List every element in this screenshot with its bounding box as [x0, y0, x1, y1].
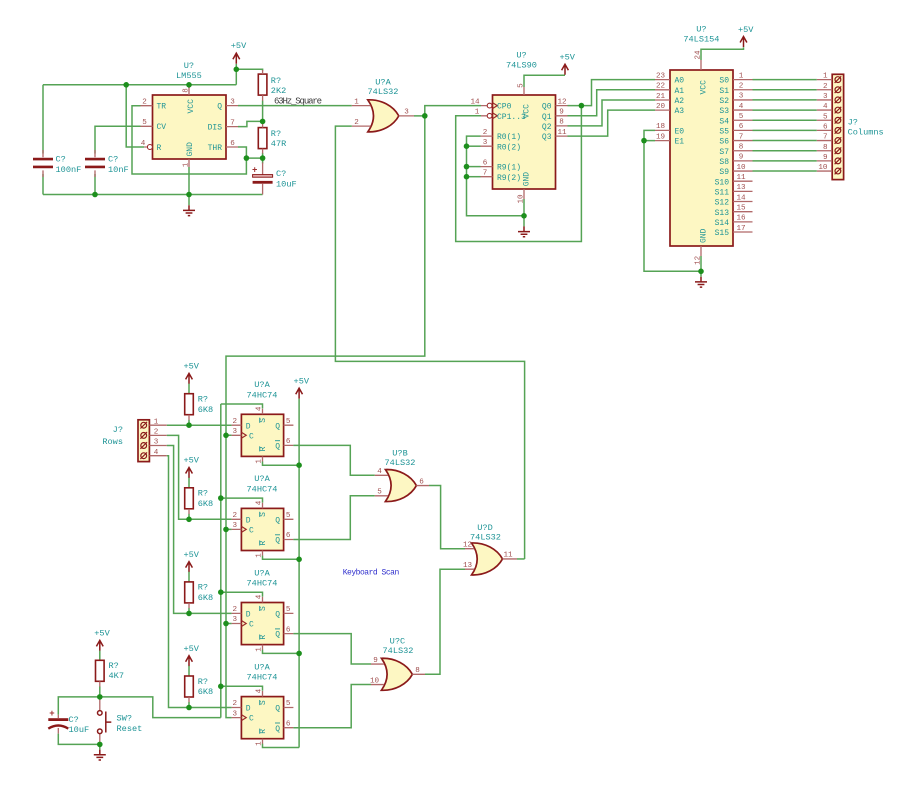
svg-text:Q1: Q1	[542, 113, 552, 122]
svg-text:4: 4	[739, 103, 744, 111]
junction (299.1,559.3)	[296, 557, 302, 563]
svg-text:11: 11	[736, 174, 746, 182]
wire R0/R9 reset pins to GND	[467, 136, 525, 216]
wire left branch to C 100nF	[42, 85, 44, 195]
wire U?C output to U?D pin 13	[425, 569, 465, 674]
svg-text:R?: R?	[109, 661, 119, 671]
junction (220.8,686.3)	[218, 684, 224, 690]
wire S7 to column 8	[753, 150, 817, 152]
svg-text:A1: A1	[675, 87, 685, 96]
ground (reset)	[99, 744, 101, 749]
svg-text:2: 2	[142, 99, 147, 107]
wire S3 to column 4	[753, 109, 817, 111]
wire DIS pin 7	[238, 121, 263, 126]
or-gate U?C 74LS32	[370, 636, 425, 690]
svg-text:U?: U?	[516, 51, 526, 61]
wire R0(2)	[467, 145, 481, 147]
resistor R2 47R	[258, 123, 286, 154]
svg-text:9: 9	[559, 109, 564, 117]
wire Q0 to A0	[568, 80, 656, 106]
wire row 2	[167, 435, 232, 519]
capacitor C2 10nF	[85, 150, 129, 177]
wire GND pin 10	[523, 199, 525, 226]
switch SW? Reset	[98, 697, 143, 745]
svg-text:Q0: Q0	[542, 103, 552, 112]
wire bottom ground rail	[43, 194, 263, 196]
resistor R7 4K7	[96, 651, 124, 697]
svg-text:C?: C?	[56, 155, 66, 165]
svg-text:S15: S15	[715, 229, 730, 238]
junction (189,84.8)	[186, 82, 192, 88]
wire B: U?D output up to U?A pin 2	[335, 126, 524, 559]
junction (226,623.5)	[223, 621, 229, 627]
svg-text:9: 9	[823, 154, 828, 162]
svg-text:6: 6	[230, 140, 235, 148]
svg-text:+5V: +5V	[94, 629, 110, 639]
svg-text:S3: S3	[719, 107, 729, 116]
svg-text:S6: S6	[719, 138, 729, 147]
svg-text:74LS32: 74LS32	[368, 87, 399, 97]
junction (220.8,592.2)	[218, 589, 224, 595]
flip-flop U4A 74HC74	[221, 568, 299, 653]
svg-text:9: 9	[373, 657, 378, 665]
svg-text:17: 17	[736, 225, 745, 233]
svg-text:+: +	[252, 166, 257, 176]
svg-text:A3: A3	[675, 107, 685, 116]
wire THR pin 6	[238, 147, 246, 158]
svg-text:U?B: U?B	[392, 448, 407, 458]
wire S8 to column 9	[753, 160, 817, 162]
svg-text:4: 4	[823, 103, 828, 111]
svg-text:S12: S12	[715, 199, 730, 208]
svg-text:R9(1): R9(1)	[497, 164, 521, 173]
wire U?B output to U?D pin 12	[429, 486, 465, 549]
svg-text:Q2: Q2	[542, 123, 552, 132]
junction (189,707.5)	[186, 705, 192, 711]
decoder U? 74LS154	[655, 25, 753, 265]
resistor R3 6K8 pull-up	[183, 362, 213, 426]
svg-text:R0(1): R0(1)	[497, 133, 521, 142]
wire clock taps to FF clocks	[226, 435, 232, 623]
svg-text:Q3: Q3	[542, 133, 552, 142]
svg-text:2K2: 2K2	[271, 86, 286, 96]
power +5V (74LS90)	[559, 53, 575, 75]
svg-text:S7: S7	[719, 148, 729, 157]
or-gate U?A 74LS32	[352, 78, 414, 132]
svg-text:4K7: 4K7	[109, 671, 124, 681]
svg-text:+5V: +5V	[294, 376, 310, 386]
svg-text:2: 2	[354, 119, 359, 127]
resistor R1 2K2	[258, 70, 286, 101]
svg-text:E1: E1	[675, 138, 685, 147]
svg-text:5: 5	[739, 113, 744, 121]
flip-flop U2A 74HC74	[221, 380, 299, 465]
svg-text:C?: C?	[69, 715, 79, 725]
wire 63Hz_Square Q output	[238, 105, 352, 107]
svg-text:S14: S14	[715, 219, 730, 228]
svg-text:19: 19	[656, 133, 666, 141]
svg-text:GND: GND	[522, 172, 531, 187]
svg-text:74LS32: 74LS32	[383, 646, 414, 656]
wire S4 to column 5	[753, 119, 817, 121]
svg-text:11: 11	[557, 129, 567, 137]
svg-text:C?: C?	[108, 155, 118, 165]
svg-text:47R: 47R	[271, 139, 286, 149]
svg-text:10: 10	[818, 164, 828, 172]
svg-text:3: 3	[404, 109, 409, 117]
wire row 4	[167, 456, 232, 708]
wire +5V junction to 2K2 top	[236, 64, 262, 85]
wire 47R bottom node	[246, 153, 262, 164]
capacitor C4 10uF polarized	[48, 709, 89, 735]
wire U?A output to CP0	[414, 106, 481, 116]
wire Q1 to A1	[568, 90, 656, 116]
junction (246.4,158.1)	[244, 155, 250, 161]
svg-text:J?: J?	[113, 425, 123, 435]
wire U?D output to feedback	[517, 558, 525, 560]
svg-text:7: 7	[739, 133, 744, 141]
wire E0 E1 enable to ground	[644, 130, 701, 271]
junction (99.8,696.9)	[97, 694, 103, 700]
svg-text:74LS154: 74LS154	[683, 34, 719, 44]
connector J? Rows	[102, 418, 166, 461]
svg-text:6: 6	[483, 159, 488, 167]
flip-flop U5A 74HC74	[221, 662, 299, 747]
junction (226,529.4)	[223, 527, 229, 533]
svg-text:74LS90: 74LS90	[506, 60, 537, 70]
junction (99.8,744.4)	[97, 742, 103, 748]
junction (701,271.3)	[698, 269, 704, 275]
svg-text:7: 7	[823, 134, 828, 142]
junction (524,215.8)	[521, 213, 527, 219]
svg-text:10: 10	[370, 677, 380, 685]
svg-text:E0: E0	[675, 128, 685, 137]
svg-text:3: 3	[739, 93, 744, 101]
junction (262.6,158.1)	[260, 155, 266, 161]
junction (299.1,465.2)	[296, 462, 302, 468]
wire +5V to flip-flop pin 1 chain	[298, 399, 300, 748]
svg-text:5: 5	[142, 119, 147, 127]
svg-text:+5V: +5V	[738, 25, 754, 35]
or-gate U?D 74LS32	[463, 523, 517, 575]
svg-text:5: 5	[377, 489, 382, 497]
wire FF3 /Q to U?C pin 9	[293, 634, 371, 664]
connector J? Columns	[817, 73, 884, 180]
svg-text:1: 1	[154, 418, 159, 426]
counter U? 74LS90	[470, 51, 567, 204]
wire GND pin 1	[188, 167, 190, 205]
svg-text:3: 3	[154, 439, 159, 447]
wire 2K2 bottom to DIS node	[262, 101, 264, 122]
svg-text:3: 3	[230, 98, 235, 106]
svg-text:R?: R?	[271, 76, 281, 86]
junction (189,194.5)	[186, 192, 192, 198]
svg-text:VCC: VCC	[700, 80, 709, 95]
svg-text:16: 16	[736, 215, 746, 223]
junction (226,435.3)	[223, 433, 229, 439]
svg-text:R?: R?	[271, 129, 281, 139]
svg-text:4: 4	[377, 468, 382, 476]
junction (189,425.2)	[186, 422, 192, 428]
svg-text:6: 6	[823, 124, 828, 132]
junction (262.6,121.4)	[260, 119, 266, 125]
or-gate U?B 74LS32	[375, 448, 429, 501]
wire FF1 /Q to U?B pin 4	[293, 445, 374, 475]
svg-text:1: 1	[183, 162, 191, 167]
svg-text:8: 8	[415, 667, 420, 675]
svg-text:15: 15	[736, 204, 746, 212]
wire reset node to capacitor	[58, 697, 100, 715]
flip-flop U3A 74HC74	[221, 474, 299, 559]
svg-text:U?C: U?C	[390, 636, 405, 646]
svg-text:8: 8	[183, 88, 191, 93]
svg-text:S8: S8	[719, 158, 729, 167]
wire S6 to column 7	[753, 140, 817, 142]
svg-text:R0(2): R0(2)	[497, 143, 521, 152]
wire S0 to column 1	[753, 79, 817, 81]
svg-text:8: 8	[739, 144, 744, 152]
svg-text:S2: S2	[719, 97, 729, 106]
svg-text:LM555: LM555	[176, 71, 202, 81]
svg-text:7: 7	[230, 119, 235, 127]
junction (126.2,84.8)	[123, 82, 129, 88]
capacitor C1 100nF	[33, 150, 81, 177]
resistor R6 6K8 pull-up	[183, 644, 213, 708]
junction (644,140.6)	[641, 138, 647, 144]
svg-text:S1: S1	[719, 87, 729, 96]
svg-text:10uF: 10uF	[69, 725, 90, 735]
junction (95,194.5)	[92, 192, 98, 198]
wire capacitor bottom to switch bottom	[58, 734, 100, 745]
svg-text:Keyboard Scan: Keyboard Scan	[343, 568, 400, 577]
power +5V (flip-flop resets)	[294, 376, 310, 398]
junction (466.5,176.7)	[464, 174, 470, 180]
wire C 10nF bottom	[94, 174, 96, 195]
svg-text:2: 2	[739, 83, 744, 91]
svg-text:14: 14	[470, 98, 480, 106]
svg-text:SW?: SW?	[117, 714, 132, 724]
wire S9 to column 10	[753, 170, 817, 172]
wire GND pin 12	[700, 256, 702, 277]
wire TR to THR return	[132, 106, 246, 174]
wire FF2 /Q to U?B pin 5	[293, 496, 374, 540]
wire VCC 74LS90 to +5V	[524, 75, 565, 87]
wire reset node jog to preset line	[100, 697, 221, 718]
svg-text:1: 1	[354, 98, 359, 106]
svg-text:18: 18	[656, 123, 666, 131]
svg-text:74LS32: 74LS32	[385, 458, 416, 468]
wire reset pin 4 net	[126, 85, 144, 147]
svg-text:+5V: +5V	[231, 41, 247, 51]
svg-text:+: +	[49, 709, 54, 719]
svg-text:3: 3	[823, 93, 828, 101]
svg-text:13: 13	[463, 562, 473, 570]
svg-text:Columns: Columns	[848, 128, 884, 138]
svg-text:A0: A0	[675, 77, 685, 86]
wire Q2 to A2	[568, 100, 656, 126]
svg-text:8: 8	[559, 119, 564, 127]
svg-text:CV: CV	[157, 123, 167, 132]
svg-text:VCC: VCC	[522, 104, 531, 119]
resistor R5 6K8 pull-up	[183, 550, 213, 614]
svg-text:1: 1	[823, 73, 828, 81]
svg-text:DIS: DIS	[208, 123, 223, 132]
junction (424.8,115.85)	[422, 113, 428, 119]
svg-text:2: 2	[823, 83, 828, 91]
junction (299.1,653.4)	[296, 651, 302, 657]
svg-text:63Hz_Square: 63Hz_Square	[274, 96, 322, 106]
svg-text:3: 3	[483, 139, 488, 147]
svg-text:S0: S0	[719, 77, 729, 86]
wire R9(1)	[467, 166, 481, 168]
svg-text:4: 4	[141, 140, 146, 148]
svg-text:4: 4	[154, 449, 159, 457]
svg-text:Rows: Rows	[102, 437, 123, 447]
junction (466.5,146.2)	[464, 143, 470, 149]
svg-text:A2: A2	[675, 97, 685, 106]
ground (74LS154)	[695, 277, 707, 287]
svg-text:13: 13	[736, 184, 746, 192]
svg-text:2: 2	[154, 429, 159, 437]
svg-text:S10: S10	[715, 178, 730, 187]
wire S5 to column 6	[753, 129, 817, 131]
svg-text:6: 6	[739, 123, 744, 131]
wire S2 to column 3	[753, 99, 817, 101]
svg-text:J?: J?	[848, 117, 858, 127]
svg-text:10: 10	[736, 164, 746, 172]
wire R9(2)	[467, 176, 481, 178]
junction (581.4,105.6)	[579, 103, 585, 109]
wire C 10nF top to CV pin 5	[95, 126, 141, 153]
svg-text:74LS32: 74LS32	[470, 532, 501, 542]
svg-text:11: 11	[503, 552, 513, 560]
wire preset line (pin 4 chain)	[220, 404, 222, 718]
svg-text:10nF: 10nF	[108, 165, 129, 175]
wire FF4 /Q to U?C pin 10	[293, 685, 371, 728]
svg-text:U?: U?	[696, 25, 706, 35]
svg-text:TR: TR	[157, 103, 167, 112]
svg-text:20: 20	[656, 103, 666, 111]
wire Q0 feedback to CP1..3	[456, 106, 582, 242]
junction (466.5,166.6)	[464, 164, 470, 170]
junction (189,519.3)	[186, 517, 192, 523]
svg-text:R9(2): R9(2)	[497, 174, 521, 183]
svg-text:7: 7	[483, 169, 488, 177]
junction (236.3,69.3)	[234, 67, 240, 73]
power +5V (reset)	[94, 629, 110, 651]
svg-text:14: 14	[736, 194, 746, 202]
svg-text:12: 12	[463, 541, 473, 549]
capacitor C3 10uF polarized	[252, 163, 297, 195]
wire +5V top rail	[43, 84, 236, 86]
ground (74LS90)	[518, 226, 530, 236]
wire VCC pin 8	[188, 85, 190, 88]
wire S1 to column 2	[753, 89, 817, 91]
svg-text:10uF: 10uF	[276, 180, 297, 190]
junction (220.8,498.1)	[218, 495, 224, 501]
svg-text:21: 21	[656, 93, 666, 101]
svg-text:23: 23	[656, 72, 666, 80]
timer U1 LM555	[141, 61, 239, 167]
svg-text:Q: Q	[217, 102, 222, 111]
svg-text:S5: S5	[719, 128, 729, 137]
junction (189,613.4)	[186, 611, 192, 617]
svg-text:S11: S11	[715, 188, 730, 197]
wire row 3	[167, 446, 232, 614]
wire A: clock feedback down to flip-flop clocks	[226, 116, 425, 718]
svg-text:CP0: CP0	[497, 103, 512, 112]
wire VCC 74LS154 to +5V	[701, 47, 744, 60]
svg-text:1: 1	[739, 72, 744, 80]
svg-text:9: 9	[739, 154, 744, 162]
svg-text:S9: S9	[719, 168, 729, 177]
svg-text:R: R	[157, 144, 162, 153]
svg-text:GND: GND	[700, 228, 709, 243]
svg-text:2: 2	[483, 129, 488, 137]
svg-text:C?: C?	[276, 169, 286, 179]
ground (555)	[183, 205, 195, 215]
svg-text:GND: GND	[186, 142, 195, 157]
svg-text:S4: S4	[719, 117, 729, 126]
svg-text:U?: U?	[184, 61, 194, 71]
svg-text:VCC: VCC	[187, 99, 196, 114]
svg-text:Reset: Reset	[117, 724, 143, 734]
svg-text:100nF: 100nF	[56, 165, 82, 175]
power +5V (555 area)	[231, 41, 247, 64]
svg-text:6: 6	[419, 478, 424, 486]
svg-text:5: 5	[823, 113, 828, 121]
svg-text:THR: THR	[208, 144, 223, 153]
svg-text:S13: S13	[715, 209, 730, 218]
svg-text:22: 22	[656, 83, 666, 91]
svg-text:12: 12	[557, 98, 567, 106]
svg-text:8: 8	[823, 144, 828, 152]
wire Q3 to A3	[568, 110, 656, 136]
wire row 1	[167, 424, 232, 426]
power +5V (74LS154)	[738, 25, 754, 47]
svg-text:+5V: +5V	[559, 53, 575, 63]
resistor R4 6K8 pull-up	[183, 456, 213, 520]
